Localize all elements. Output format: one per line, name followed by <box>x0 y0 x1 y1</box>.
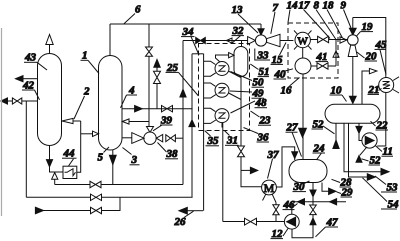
valve below pump M <box>273 203 279 222</box>
line 53 from tank bottom <box>344 123 389 175</box>
label 53 <box>375 176 398 193</box>
label 5 <box>98 147 110 164</box>
pipe from cone 20 into tank 10 <box>349 57 356 104</box>
label 42 <box>22 79 40 100</box>
label 25 <box>166 62 199 96</box>
pump M 37 circle <box>262 180 277 195</box>
label 1 <box>81 50 100 74</box>
label 28 <box>332 176 353 188</box>
label 40 <box>274 68 294 80</box>
valve on y184.5 <box>90 181 101 187</box>
heat exchanger W c <box>215 109 229 123</box>
label 17 <box>299 0 331 39</box>
dashed block 25 <box>199 44 250 131</box>
label 34 <box>181 26 199 55</box>
valve 36 on x241 <box>238 146 262 187</box>
label 4 <box>121 84 138 108</box>
label 7 <box>271 2 279 34</box>
label 19 <box>356 21 373 36</box>
svg-text:7: 7 <box>273 2 279 14</box>
label 54 <box>363 178 400 211</box>
valve right of 39 <box>166 135 183 142</box>
column2 bottom outlet <box>109 150 116 185</box>
label 36 <box>244 128 270 144</box>
ejector body circle <box>255 35 266 46</box>
riser x336 with open arrow <box>333 40 339 67</box>
svg-text:18: 18 <box>323 0 335 11</box>
label 8 <box>314 0 337 40</box>
label 46 <box>283 199 298 211</box>
bracket for 33 <box>255 49 270 61</box>
label 30 <box>293 181 310 193</box>
zigzag connectors left of W chain <box>204 61 216 123</box>
heat exchanger W a <box>215 62 229 76</box>
svg-text:3: 3 <box>131 154 138 166</box>
bottom header y197.3 <box>26 196 192 198</box>
pipe: column2 overhead to line 6 <box>109 24 111 56</box>
label 47 <box>316 216 339 237</box>
line from W chain bottom x222 down to pump 12 header <box>222 123 224 222</box>
pipe: column1 side draw y79 <box>16 76 38 82</box>
pipe: inlet arrow into column1 right side <box>62 118 81 123</box>
svg-text:35: 35 <box>207 135 220 147</box>
label 32 <box>232 25 245 44</box>
valve 39 left cone from column2 bottom <box>122 133 144 144</box>
valve 34 on suction header <box>196 37 206 43</box>
pump 11 lower connection with up arrow <box>356 147 367 163</box>
svg-text:2: 2 <box>83 86 90 98</box>
label 48 <box>231 97 268 113</box>
svg-text:16: 16 <box>281 84 293 96</box>
pump 11 suction from tank <box>356 123 362 140</box>
ejector suction header y40.5 <box>183 40 248 42</box>
label 49 <box>230 88 264 100</box>
inlet arrow into separator 33 <box>216 53 235 62</box>
svg-text:43: 43 <box>24 52 37 64</box>
svg-text:6: 6 <box>135 4 141 16</box>
drum 24 bottom line 29 arrow <box>322 183 336 195</box>
valve on y210.5 <box>91 207 102 213</box>
injector 19 circle with inlet arrow <box>348 18 359 46</box>
riser x192.6 from y197.3 up <box>189 54 204 198</box>
pump 11 <box>362 133 377 148</box>
valve on y101 line <box>12 98 21 104</box>
cooler outlet to pump 11 <box>377 92 386 146</box>
valve on riser x149 <box>146 47 153 56</box>
drum 16 outlet down to drum 24 <box>299 74 307 160</box>
heat exchanger 15 (W) <box>294 31 312 50</box>
svg-text:M: M <box>264 181 275 195</box>
label 9 <box>341 0 352 28</box>
line 54 from tank bottom <box>349 123 376 180</box>
pipe: line 6 top header <box>110 23 261 25</box>
drum 16 circle <box>295 48 311 74</box>
label 43 <box>24 52 47 71</box>
pipe: branch into column 2 left <box>81 131 99 136</box>
injector cone 20 <box>348 45 357 57</box>
label 37 <box>267 149 280 179</box>
label 27 <box>286 122 302 157</box>
valve 41 line <box>311 63 336 69</box>
control valve 38/39 assembly: top open arrow <box>147 127 154 133</box>
label 33 <box>257 49 270 61</box>
air cooler 21 <box>379 77 399 93</box>
label 38 <box>158 143 179 161</box>
label 52 <box>362 154 382 166</box>
pipe: return arrow into column2 right y121 <box>122 119 149 124</box>
label 31 <box>225 131 239 147</box>
label 29 <box>337 186 354 198</box>
label 50 <box>231 72 265 89</box>
pump 12 suction header y221.5 <box>223 221 285 223</box>
svg-text:W: W <box>298 35 309 47</box>
drum 24 bottom outlet with valve chain x313 <box>292 183 316 238</box>
return stub into tank bottom x336 <box>333 123 339 148</box>
valve on pump12 header <box>245 218 257 225</box>
line 26 outlet with arrow <box>179 207 203 214</box>
label 23 <box>251 111 272 127</box>
svg-text:31: 31 <box>226 135 238 147</box>
dashed block 14 <box>288 23 338 78</box>
heater 44 box <box>63 166 77 178</box>
condensate line x241 from separator 33 <box>240 77 242 147</box>
pipe: column1 draw y101 with valve <box>1 98 37 104</box>
long line x203 <box>203 54 205 211</box>
svg-text:38: 38 <box>166 148 179 160</box>
label 26 <box>174 211 194 228</box>
label 35 <box>205 131 219 147</box>
top line to air cooler 45 <box>353 18 386 78</box>
label 2 <box>74 86 90 120</box>
label 15 <box>271 43 287 66</box>
label 39 <box>153 114 173 131</box>
left riser x26.3 <box>25 101 27 197</box>
label 14 <box>287 0 299 23</box>
label 16 <box>281 78 300 97</box>
label 41 <box>316 51 329 63</box>
label 22 <box>371 119 389 131</box>
drum 24 <box>289 160 327 183</box>
ejector 7: motive inlet from line 6 <box>258 24 264 35</box>
tank 10 <box>325 104 380 123</box>
label 45 <box>375 39 388 75</box>
label 11 <box>376 146 394 158</box>
pump M discharge up into drum 24 <box>276 147 297 187</box>
column 2 (pos.1) <box>99 56 123 151</box>
label 3 <box>123 148 140 167</box>
label 44 <box>62 148 77 167</box>
pipe: heater 44 outlet riser to columns <box>77 121 81 172</box>
label 24 <box>313 142 326 160</box>
column 1 (pos.43) <box>38 54 62 146</box>
valve 8 on y39.5 <box>310 36 347 43</box>
line 46 with left arrows <box>292 199 346 205</box>
pipe: column1 bottom outlet <box>46 146 63 173</box>
label 6 <box>124 4 141 24</box>
ejector diffuser cone 7 <box>267 34 294 46</box>
label 12 <box>271 228 289 240</box>
feed line y210.5 with arrow <box>35 197 120 214</box>
pump M bottom legs <box>263 194 277 202</box>
label 52 <box>312 118 335 134</box>
heat exchanger W b <box>215 83 229 97</box>
connectors right of W chain to condensate line <box>222 71 241 127</box>
label 13 <box>232 4 259 33</box>
pump 12 top riser to line 46 <box>291 202 293 215</box>
valve on y197.3 <box>91 194 102 200</box>
flow arrow open left on suction header <box>226 38 232 43</box>
label 21 <box>368 84 382 96</box>
svg-text:14: 14 <box>287 0 299 11</box>
valve on y109 line <box>162 106 173 112</box>
bottom header y184.5 <box>55 184 183 186</box>
label 18 <box>323 0 343 38</box>
vent riser x157 with arrow and valve <box>154 60 161 109</box>
svg-text:5: 5 <box>98 152 104 164</box>
branch arrow toward pump M <box>241 167 258 173</box>
riser from bottom header into heater line, open arrow up <box>52 173 58 185</box>
vent line column 1 <box>46 35 53 54</box>
pump 12 <box>284 214 299 229</box>
svg-text:13: 13 <box>232 4 244 16</box>
riser x183 from y184.5 to ejector suction y40.5 <box>180 41 186 185</box>
label 51 <box>250 64 269 78</box>
svg-text:1: 1 <box>82 50 88 62</box>
separator 33 capsule <box>234 41 248 77</box>
ejector 13 inlet cone <box>248 37 256 45</box>
pipe: column2 vapor side line y109 <box>122 106 193 112</box>
label 20 <box>357 50 377 62</box>
riser x149 from header y24 down to valve 39 <box>148 24 150 127</box>
control valve 39 body circle <box>144 132 156 144</box>
valve 39 right cone <box>156 135 162 142</box>
tank vapor line to cooler with open arrow <box>362 68 377 104</box>
label 10 <box>330 84 347 101</box>
